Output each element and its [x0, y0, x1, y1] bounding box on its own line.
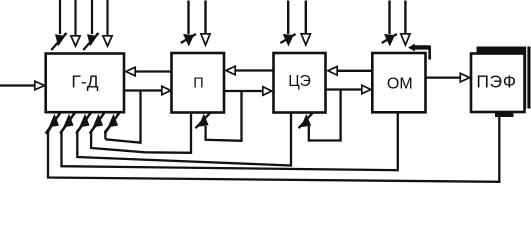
feedback arrowhead 1 into Г-Д bottom (slashed) — [46, 113, 61, 134]
top input line 1 of ОМ (filled slashed arrow) — [382, 1, 397, 47]
block ОМ — [372, 53, 425, 112]
top input line 2 of П (hollow arrow) — [201, 1, 210, 46]
wire: feedback from П bottom to Г-Д arrow 4 — [91, 113, 191, 153]
svg-text:ОМ: ОМ — [387, 76, 413, 93]
block ПЭФ (front box) — [471, 54, 525, 113]
block ПЭФ stack sheet (black, offset up-right) — [477, 46, 531, 118]
wire: tail of Г-Д feedback arrow 5 — [104, 131, 106, 140]
feedback arrowhead 2 into Г-Д bottom (slashed) — [60, 113, 75, 134]
top input line 1 of Г-Д (filled slashed arrow) — [51, 0, 66, 50]
wire: forward arrow ОМ to ПЭФ — [426, 73, 470, 82]
feedback arrowhead 4 into Г-Д bottom (slashed) — [90, 113, 105, 134]
wire: branch from П→ЦЭ line down and left to П bottom arrow — [206, 91, 242, 141]
bent output mark at top-right of ОМ — [408, 44, 430, 60]
wire: backward arrow ЦЭ to П — [226, 66, 274, 75]
top input line 3 of Г-Д (filled slashed arrow) — [83, 0, 98, 50]
wire: feedback from ОМ bottom to Г-Д arrow 2 — [62, 112, 398, 170]
top input line 1 of ЦЭ (filled slashed arrow) — [280, 1, 295, 47]
wire: branch from ЦЭ→ОМ line down and left to ЦЭ bottom arrow — [309, 90, 341, 141]
svg-text:Г-Д: Г-Д — [71, 71, 98, 91]
wire: branch from Г-Д→П line down and left to feedback arrow 5 — [105, 91, 140, 143]
svg-text:ПЭФ: ПЭФ — [476, 71, 516, 91]
top input line 2 of ОМ (hollow arrow) — [401, 1, 410, 46]
wire: backward arrow П to Г-Д — [126, 67, 172, 76]
wire: forward arrow П to ЦЭ — [224, 87, 272, 96]
svg-text:П: П — [193, 76, 203, 92]
wire: forward arrow Г-Д to П — [124, 86, 171, 95]
wire: feedback from ПЭФ bottom to Г-Д arrow 1 — [48, 113, 499, 182]
block П (converter) — [172, 53, 225, 113]
block ЦЭ — [274, 53, 326, 113]
feedback arrowhead into П bottom (slashed) — [196, 112, 211, 128]
top input line 2 of Г-Д (hollow arrow) — [71, 0, 80, 46]
top input line 2 of ЦЭ (hollow arrow) — [301, 1, 310, 46]
svg-text:ЦЭ: ЦЭ — [288, 73, 311, 90]
feedback arrowhead into ЦЭ bottom (slashed) — [299, 113, 313, 129]
feedback arrowhead 5 into Г-Д bottom (slashed) — [105, 113, 120, 134]
top input line 1 of П (filled slashed arrow) — [181, 1, 196, 47]
block Г-Д (generator-motor) — [46, 54, 124, 113]
top input line 4 of Г-Д (hollow arrow) — [103, 0, 112, 46]
wire: forward arrow ЦЭ to ОМ — [326, 85, 371, 94]
wire: feedback from ЦЭ bottom to Г-Д arrow 3 — [77, 113, 291, 166]
wire: backward arrow ОМ to ЦЭ — [328, 67, 372, 76]
main input arrow into Г-Д from left — [0, 81, 45, 90]
feedback arrowhead 3 into Г-Д bottom (slashed) — [76, 113, 91, 134]
